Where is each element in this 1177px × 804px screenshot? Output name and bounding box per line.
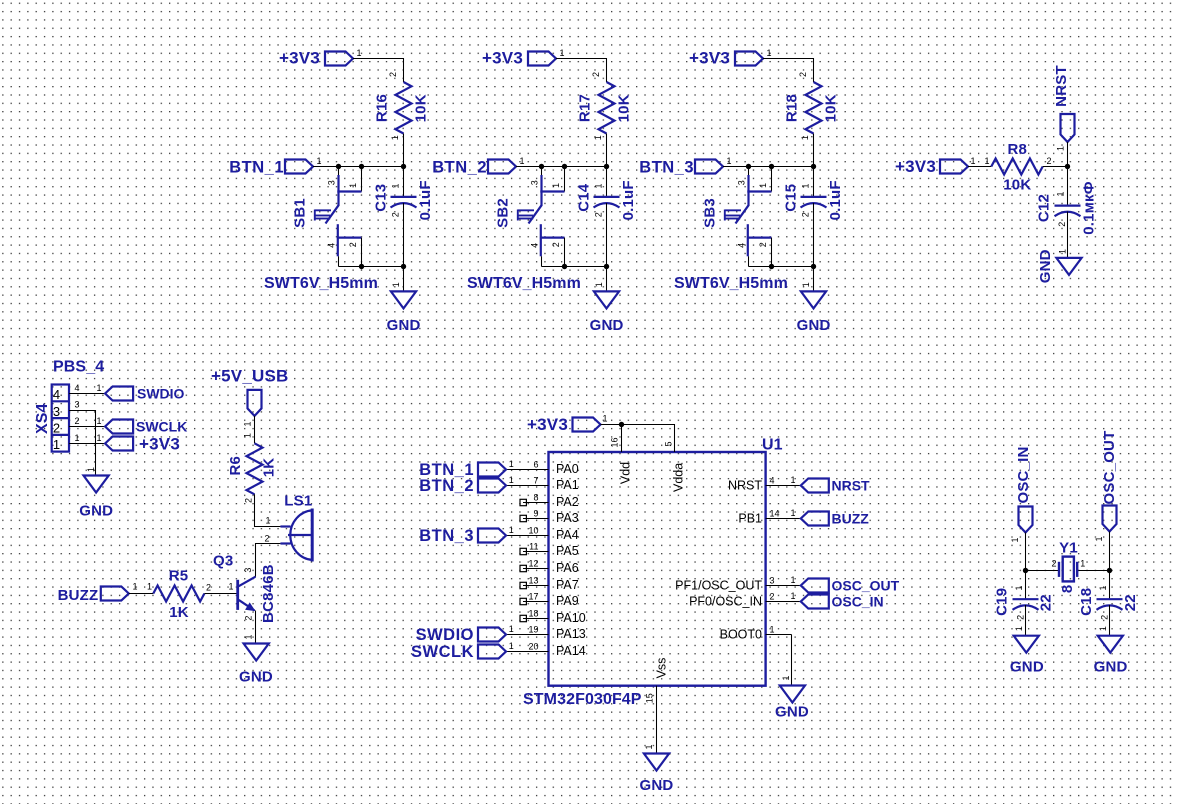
wire BOOT0 to ground (791, 635, 793, 686)
svg-text:+5V_USB: +5V_USB (211, 366, 288, 385)
svg-text:2: 2 (348, 242, 358, 247)
svg-text:2: 2 (264, 534, 269, 544)
svg-text:GND: GND (387, 317, 421, 334)
svg-text:BUZZ: BUZZ (832, 511, 870, 527)
svg-text:1: 1 (133, 582, 138, 592)
svg-text:3: 3 (243, 568, 253, 573)
pin 3 PF1/OSC_OUT of U1 (766, 585, 792, 587)
svg-text:OSC_IN: OSC_IN (832, 594, 884, 610)
svg-text:4: 4 (770, 475, 775, 485)
wire Q3 collector to LS1 pin 2 (256, 544, 281, 577)
resistor R17 10K (599, 82, 615, 134)
svg-text:SWDIO: SWDIO (137, 385, 185, 401)
ground (rotated label) (1056, 258, 1081, 275)
svg-text:3: 3 (737, 180, 747, 185)
pin 13 PA7 of U1 (523, 585, 549, 587)
junction (746, 164, 751, 169)
svg-text:PA3: PA3 (556, 511, 579, 525)
svg-text:1: 1 (509, 475, 514, 485)
junction (1107, 568, 1112, 573)
pin 17 PA9 of U1 (523, 601, 549, 603)
svg-text:1: 1 (1056, 146, 1066, 151)
svg-text:SB3: SB3 (702, 198, 719, 228)
wire OSC_OUT to node (1109, 532, 1111, 571)
svg-text:PA4: PA4 (556, 528, 579, 542)
svg-text:4: 4 (530, 243, 540, 248)
junction (811, 264, 816, 269)
svg-text:PA5: PA5 (556, 544, 579, 558)
svg-text:Y1: Y1 (1059, 540, 1078, 557)
svg-text:1K: 1K (169, 604, 189, 621)
svg-text:1: 1 (509, 641, 514, 651)
svg-text:PA1: PA1 (556, 478, 579, 492)
svg-text:1: 1 (242, 421, 252, 426)
svg-text:1: 1 (791, 508, 796, 518)
capacitor C19 22 (1025, 571, 1027, 600)
svg-text:NRST: NRST (1053, 65, 1070, 107)
svg-text:2: 2 (1057, 222, 1067, 227)
svg-text:1: 1 (800, 135, 810, 140)
ground (391, 291, 416, 308)
svg-text:2: 2 (53, 421, 60, 436)
pin 14 PB1 of U1 (766, 518, 792, 520)
wire BTN_1 node (313, 166, 404, 168)
svg-text:GND: GND (797, 317, 831, 334)
svg-text:LS1: LS1 (284, 492, 312, 509)
svg-text:1: 1 (1014, 585, 1024, 590)
svg-text:GND: GND (79, 503, 113, 520)
net flag NRST (U1) (792, 485, 801, 487)
svg-text:1: 1 (791, 575, 796, 585)
svg-text:PA2: PA2 (556, 495, 579, 509)
svg-text:3: 3 (53, 404, 60, 419)
svg-text:1: 1 (770, 624, 775, 634)
svg-text:GND: GND (239, 668, 273, 685)
svg-text:1: 1 (644, 744, 654, 749)
svg-text:7: 7 (533, 475, 538, 485)
svg-text:PBS_4: PBS_4 (53, 359, 104, 376)
svg-text:+3V3: +3V3 (279, 49, 320, 68)
svg-text:GND: GND (1010, 658, 1044, 675)
pin 12 PA6 of U1 (523, 568, 549, 570)
svg-text:R5: R5 (169, 568, 189, 585)
svg-text:1: 1 (758, 183, 768, 188)
svg-text:17: 17 (528, 591, 538, 601)
svg-text:C18: C18 (1078, 588, 1095, 616)
svg-text:BC846B: BC846B (260, 564, 277, 623)
svg-text:2: 2 (243, 616, 253, 621)
svg-text:1: 1 (1014, 626, 1024, 631)
wire switch bottom (749, 266, 814, 268)
svg-text:BUZZ: BUZZ (58, 587, 99, 604)
svg-text:PA14: PA14 (556, 644, 586, 658)
svg-text:2: 2 (758, 242, 768, 247)
svg-text:15: 15 (644, 693, 654, 703)
svg-text:1: 1 (791, 591, 796, 601)
svg-text:R18: R18 (784, 94, 801, 122)
svg-text:1: 1 (727, 156, 732, 166)
svg-text:6: 6 (533, 459, 538, 469)
svg-text:STM32F030F4P: STM32F030F4P (523, 691, 642, 708)
junction (359, 264, 364, 269)
svg-text:22: 22 (1122, 594, 1139, 611)
pin 20 PA14 of U1 (523, 651, 549, 653)
wire +3V3 to Vdd/Vdda (601, 425, 675, 453)
svg-text:OSC_OUT: OSC_OUT (1101, 431, 1118, 505)
svg-text:1: 1 (147, 582, 152, 592)
svg-text:1: 1 (800, 183, 810, 188)
svg-text:+3V3: +3V3 (895, 157, 936, 176)
pin 10 PA4 of U1 (523, 535, 549, 537)
junction (811, 164, 816, 169)
svg-text:BTN_1: BTN_1 (229, 158, 284, 176)
wire to ground (813, 267, 815, 292)
wire to ground (403, 267, 405, 292)
svg-text:1: 1 (985, 156, 990, 166)
no-connect PA2 (520, 499, 526, 505)
svg-text:1: 1 (1094, 536, 1104, 541)
pin 4 NRST of U1 (766, 485, 792, 487)
svg-text:2: 2 (244, 498, 254, 503)
svg-text:2: 2 (798, 72, 808, 77)
ground (C18) (1098, 636, 1123, 653)
svg-text:PB1: PB1 (738, 512, 762, 526)
svg-text:1: 1 (229, 582, 234, 592)
svg-text:4: 4 (75, 383, 80, 393)
svg-text:NRST: NRST (832, 478, 871, 494)
svg-text:1: 1 (593, 135, 603, 140)
svg-text:2: 2 (1047, 156, 1052, 166)
svg-text:PA10: PA10 (556, 611, 586, 625)
svg-text:Vss: Vss (655, 658, 669, 679)
svg-text:BTN_3: BTN_3 (639, 158, 694, 176)
svg-text:4: 4 (737, 243, 747, 248)
svg-text:18: 18 (528, 608, 538, 618)
svg-text:1: 1 (509, 624, 514, 634)
svg-text:14: 14 (770, 508, 780, 518)
junction (401, 264, 406, 269)
resistor R8 10K (991, 159, 1042, 175)
wire +3V3 to R8 (968, 166, 991, 168)
svg-text:1: 1 (97, 433, 102, 443)
wire R8 to node (1043, 166, 1068, 168)
svg-text:4: 4 (327, 243, 337, 248)
svg-text:1: 1 (265, 515, 270, 525)
svg-text:PA13: PA13 (556, 627, 586, 641)
svg-text:BTN_3: BTN_3 (419, 527, 474, 545)
svg-text:1: 1 (767, 48, 772, 58)
pin 9 PA3 of U1 (523, 518, 549, 520)
svg-text:1: 1 (509, 459, 514, 469)
switch SB1 SWT6V_H5mm (338, 167, 340, 177)
svg-text:4: 4 (53, 387, 60, 402)
net flag BTN_2 (U1) (506, 485, 523, 487)
svg-text:1: 1 (1080, 558, 1085, 568)
svg-text:12: 12 (528, 558, 538, 568)
svg-text:2: 2 (1051, 558, 1056, 568)
ground (Vss) (644, 754, 669, 771)
svg-text:10K: 10K (1003, 176, 1031, 193)
wire XS4 pin 1 to +3V3 (69, 443, 105, 445)
wire XS4 pin 3 to ground (69, 411, 96, 476)
svg-text:+3V3: +3V3 (482, 49, 523, 68)
svg-text:1: 1 (391, 282, 401, 287)
svg-text:1: 1 (593, 183, 603, 188)
wire Vss to ground (656, 686, 658, 754)
svg-text:SWT6V_H5mm: SWT6V_H5mm (264, 275, 378, 292)
svg-text:1: 1 (509, 525, 514, 535)
svg-text:8: 8 (533, 492, 538, 502)
svg-text:10K: 10K (412, 94, 429, 122)
net flag SWDIO (105, 387, 133, 401)
pin 6 PA0 of U1 (523, 469, 549, 471)
svg-text:1: 1 (781, 675, 791, 680)
svg-text:22: 22 (1038, 594, 1055, 611)
svg-text:SWCLK: SWCLK (411, 643, 474, 661)
wire OSC_IN to node (1025, 533, 1027, 571)
svg-text:GND: GND (1037, 249, 1054, 283)
junction (769, 264, 774, 269)
svg-text:1: 1 (1098, 626, 1108, 631)
svg-text:1: 1 (1010, 537, 1020, 542)
svg-text:8: 8 (1059, 585, 1076, 594)
svg-text:11: 11 (529, 541, 538, 551)
svg-text:SWCLK: SWCLK (136, 419, 187, 435)
junction (562, 164, 567, 169)
ground (594, 291, 619, 308)
svg-text:PF0/OSC_IN: PF0/OSC_IN (689, 595, 762, 609)
svg-text:C14: C14 (575, 183, 592, 212)
svg-text:9: 9 (533, 508, 538, 518)
svg-text:Q3: Q3 (213, 552, 233, 569)
svg-text:1: 1 (244, 634, 254, 639)
svg-text:1: 1 (317, 156, 322, 166)
svg-text:SB2: SB2 (495, 198, 512, 228)
svg-text:GND: GND (590, 317, 624, 334)
wire BTN_2 node (516, 166, 607, 168)
net flag OSC_OUT (U1) (792, 585, 801, 587)
svg-text:2: 2 (551, 242, 561, 247)
junction (1065, 164, 1070, 169)
wire Q3 emitter to ground (255, 611, 257, 644)
svg-text:0.1uF: 0.1uF (620, 180, 637, 220)
svg-text:2: 2 (390, 212, 400, 217)
no-connect PA3 (520, 515, 526, 521)
ground (BOOT0) (780, 686, 805, 703)
svg-text:NRST: NRST (728, 479, 762, 493)
resistor R5 1K (153, 586, 204, 602)
svg-text:SWT6V_H5mm: SWT6V_H5mm (467, 275, 581, 292)
capacitor C12 0.1mkF (1067, 167, 1069, 206)
svg-text:BTN_2: BTN_2 (419, 477, 474, 495)
svg-text:PA0: PA0 (556, 462, 579, 476)
svg-text:C13: C13 (372, 184, 389, 212)
svg-text:+3V3: +3V3 (139, 434, 180, 453)
svg-text:16: 16 (610, 437, 620, 447)
capacitor C14 0.1uF (606, 167, 608, 197)
svg-text:10K: 10K (822, 94, 839, 122)
svg-text:C19: C19 (994, 588, 1011, 616)
net flag OSC_IN (U1) (792, 601, 801, 603)
svg-text:OSC_OUT: OSC_OUT (832, 578, 900, 594)
pin 18 PA10 of U1 (523, 618, 549, 620)
svg-text:PA6: PA6 (556, 561, 579, 575)
svg-text:1: 1 (560, 48, 565, 58)
svg-text:SWT6V_H5mm: SWT6V_H5mm (674, 275, 788, 292)
svg-text:1: 1 (75, 433, 80, 443)
power flag +3V3 (XS4) (105, 437, 133, 451)
svg-text:1: 1 (348, 183, 358, 188)
svg-text:3: 3 (327, 180, 337, 185)
resistor R6 1K (247, 443, 263, 494)
wire BTN_3 node (723, 166, 814, 168)
junction (604, 164, 609, 169)
svg-text:GND: GND (775, 704, 809, 721)
svg-text:1: 1 (603, 414, 608, 424)
svg-text:2: 2 (770, 591, 775, 601)
no-connect PA7 (520, 582, 526, 588)
svg-text:10: 10 (528, 525, 538, 535)
wire R16 to node (403, 134, 405, 167)
svg-text:PF1/OSC_OUT: PF1/OSC_OUT (675, 579, 762, 593)
svg-text:0.1uF: 0.1uF (417, 180, 434, 220)
wire switch bottom (339, 266, 404, 268)
svg-text:1: 1 (551, 183, 561, 188)
capacitor C18 22 (1109, 571, 1111, 600)
no-connect PA9 (520, 598, 526, 604)
svg-text:3: 3 (770, 575, 775, 585)
svg-text:20: 20 (528, 641, 538, 651)
net flag SWCLK (U1) (506, 651, 523, 653)
svg-text:2: 2 (206, 582, 211, 592)
svg-text:2: 2 (593, 212, 603, 217)
svg-text:+3V3: +3V3 (689, 49, 730, 68)
wire R17 to node (606, 134, 608, 167)
wire crystal right (1077, 570, 1109, 572)
junction (1023, 568, 1028, 573)
pin 1 BOOT0 of U1 (766, 634, 792, 636)
svg-text:1: 1 (520, 156, 525, 166)
svg-text:2: 2 (1100, 615, 1110, 620)
svg-text:GND: GND (1094, 658, 1128, 675)
svg-text:2: 2 (75, 416, 80, 426)
svg-text:Vdd: Vdd (619, 462, 633, 484)
svg-text:1: 1 (357, 48, 362, 58)
svg-text:5: 5 (664, 441, 674, 446)
svg-text:R8: R8 (1008, 141, 1028, 158)
wire XS4 pin 2 to SWCLK (69, 426, 105, 428)
wire R18 to node (813, 134, 815, 167)
svg-text:19: 19 (528, 624, 538, 634)
svg-text:R6: R6 (227, 456, 244, 476)
svg-text:C12: C12 (1036, 194, 1053, 222)
wire BUZZ to R5 (129, 593, 154, 595)
svg-text:U1: U1 (762, 437, 783, 454)
svg-text:SWDIO: SWDIO (416, 626, 474, 644)
junction (359, 164, 364, 169)
svg-text:2: 2 (1016, 615, 1026, 620)
junction (604, 264, 609, 269)
wire NRST flag to node (1067, 142, 1069, 167)
pin 7 PA1 of U1 (523, 485, 549, 487)
junction (539, 164, 544, 169)
svg-text:2: 2 (800, 212, 810, 217)
junction (769, 164, 774, 169)
svg-text:1: 1 (242, 433, 252, 438)
wire R6 to LS1 pin 1 (255, 494, 281, 526)
pin 8 PA2 of U1 (523, 502, 549, 504)
net flag BTN_3 (U1) (506, 535, 523, 537)
junction (336, 164, 341, 169)
no-connect PA6 (520, 565, 526, 571)
junction (562, 264, 567, 269)
svg-text:GND: GND (640, 777, 674, 794)
svg-text:1: 1 (97, 383, 102, 393)
ground (XS4) (84, 476, 109, 493)
svg-text:3: 3 (75, 399, 80, 409)
wire R5 to Q3 base (204, 593, 236, 595)
wire +3V3 to R16 (353, 59, 404, 83)
svg-text:SB1: SB1 (292, 198, 309, 228)
net flag BTN_1 (U1) (506, 469, 523, 471)
net flag BUZZ (U1) (792, 518, 801, 520)
wire to ground (606, 267, 608, 292)
svg-text:1: 1 (801, 282, 811, 287)
no-connect PA5 (520, 548, 526, 554)
svg-text:10K: 10K (615, 94, 632, 122)
resistor R18 10K (806, 82, 822, 134)
pin 2 PF0/OSC_IN of U1 (766, 601, 792, 603)
wire +3V3 to R18 (763, 59, 814, 83)
wire +3V3 to R17 (556, 59, 607, 83)
svg-text:1: 1 (1098, 585, 1108, 590)
svg-text:PA7: PA7 (556, 578, 579, 592)
junction (619, 422, 624, 427)
svg-text:R17: R17 (577, 94, 594, 122)
pin 19 PA13 of U1 (523, 634, 549, 636)
svg-text:R16: R16 (374, 94, 391, 122)
svg-text:13: 13 (528, 575, 538, 585)
svg-text:0.1uF: 0.1uF (827, 180, 844, 220)
svg-text:1: 1 (390, 135, 400, 140)
ground (Q3 emitter) (244, 644, 269, 661)
svg-text:2: 2 (591, 72, 601, 77)
svg-text:PA9: PA9 (556, 594, 579, 608)
svg-text:1: 1 (97, 416, 102, 426)
junction (401, 164, 406, 169)
svg-text:1: 1 (53, 437, 60, 452)
svg-text:C15: C15 (782, 184, 799, 212)
wire switch bottom (542, 266, 607, 268)
switch SB3 SWT6V_H5mm (748, 167, 750, 177)
pin 11 PA5 of U1 (523, 551, 549, 553)
wire +5V_USB to R6 (254, 416, 256, 443)
svg-text:1: 1 (390, 183, 400, 188)
wire crystal left (1026, 570, 1060, 572)
svg-text:3: 3 (530, 180, 540, 185)
svg-text:1: 1 (1056, 191, 1066, 196)
svg-text:1: 1 (791, 475, 796, 485)
wire XS4 pin 4 to SWDIO (69, 393, 105, 395)
svg-text:BTN_2: BTN_2 (432, 158, 487, 176)
capacitor C15 0.1uF (813, 167, 815, 197)
svg-text:2: 2 (388, 72, 398, 77)
svg-text:0.1мкФ: 0.1мкФ (1081, 181, 1098, 234)
net flag SWDIO (U1) (506, 634, 523, 636)
svg-text:1: 1 (1058, 249, 1068, 254)
net flag SWCLK (105, 420, 133, 434)
svg-text:1K: 1K (261, 458, 278, 478)
